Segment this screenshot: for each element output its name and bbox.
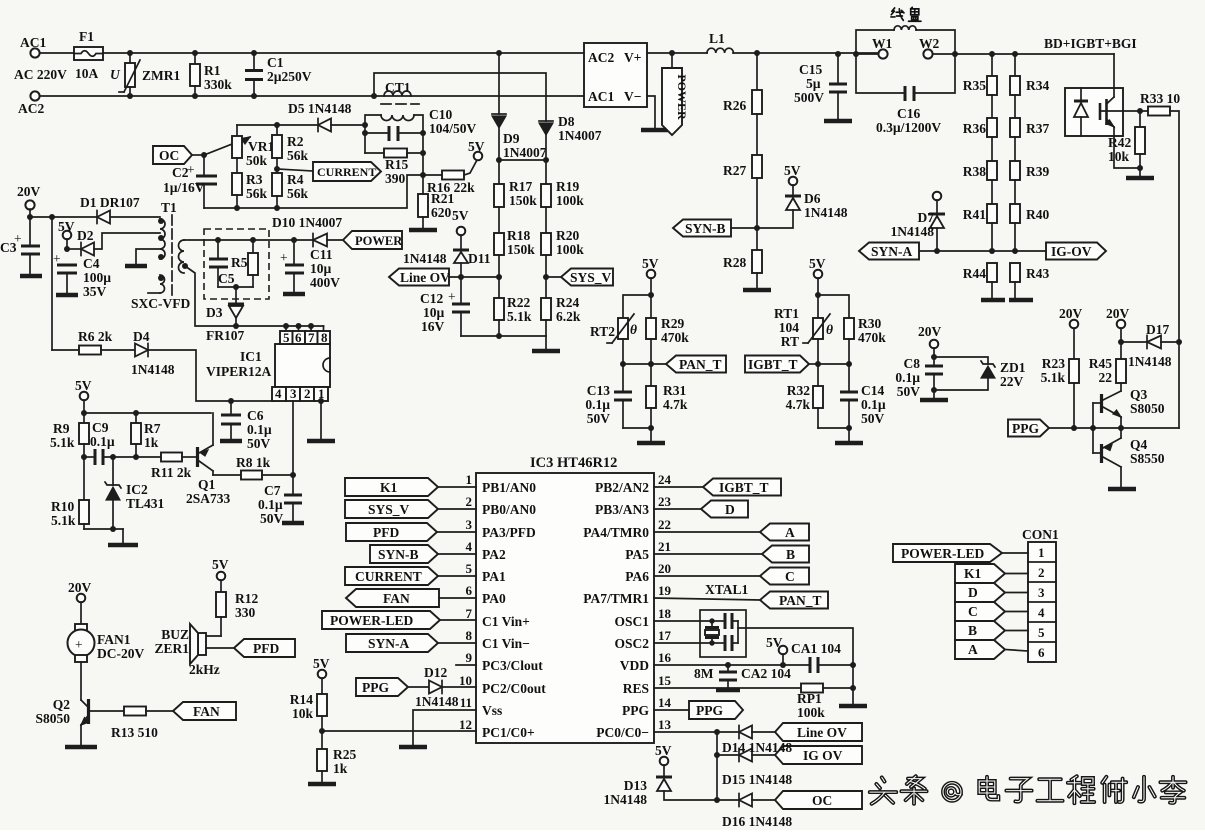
wire OSC2 to crystal	[654, 640, 715, 645]
svg-text:D13: D13	[624, 778, 647, 793]
svg-text:1: 1	[1038, 545, 1045, 560]
node interconnect right	[543, 157, 549, 163]
svg-text:1N4148: 1N4148	[403, 251, 447, 266]
svg-text:Q2: Q2	[53, 697, 71, 712]
svg-text:5: 5	[1038, 625, 1045, 640]
svg-text:5: 5	[466, 561, 473, 576]
wire V+ output	[647, 52, 707, 54]
svg-text:10k: 10k	[1108, 149, 1130, 164]
svg-text:PB0/AN0: PB0/AN0	[482, 502, 536, 517]
node 5V terminal R14	[313, 656, 330, 694]
fuse F1 10A	[74, 29, 103, 81]
svg-text:16V: 16V	[421, 319, 445, 334]
capacitor C1 2u250V	[245, 53, 312, 96]
diode D15 1N4148	[717, 749, 775, 762]
IC IC3 HT46R12 box	[476, 455, 654, 743]
resistor R33 10	[1140, 91, 1180, 342]
node RT2 bottom	[620, 361, 626, 367]
svg-text:19: 19	[658, 583, 672, 598]
flag K1 (CON1 pin2)	[955, 564, 1028, 583]
svg-text:VR1: VR1	[248, 139, 274, 154]
node junction ZMR1 bottom	[127, 93, 133, 99]
svg-text:F1: F1	[79, 29, 94, 44]
node AC1 sample junction	[371, 93, 377, 99]
wire gate to R33	[1123, 110, 1148, 112]
svg-text:IC3 HT46R12: IC3 HT46R12	[530, 455, 617, 471]
node C10 left	[362, 130, 368, 136]
wire IGBT emitter to R42 ground	[1114, 136, 1154, 178]
resistor R14 10k	[290, 692, 327, 749]
node W1 terminal	[856, 36, 893, 59]
svg-text:R39: R39	[1026, 164, 1049, 179]
svg-text:R13 510: R13 510	[111, 725, 158, 740]
capacitor C14 0.1u 50V	[840, 364, 886, 428]
svg-text:R12: R12	[235, 591, 258, 606]
svg-text:IGBT_T: IGBT_T	[748, 357, 798, 372]
svg-text:1: 1	[466, 472, 473, 487]
wire IC1 pin1 to ground	[307, 398, 335, 441]
capacitor C5	[209, 237, 235, 287]
crystal element	[705, 621, 719, 643]
svg-text:1k: 1k	[333, 761, 348, 776]
svg-text:7: 7	[466, 606, 473, 621]
svg-text:PB2/AN2: PB2/AN2	[595, 480, 649, 495]
diode D16 1N4148	[717, 794, 775, 807]
wire VR1 wiper arrow	[204, 137, 250, 155]
resistor R12 330	[216, 591, 258, 636]
diode D11 1N4148	[403, 235, 491, 277]
svg-text:22: 22	[658, 517, 671, 532]
svg-text:VIPER12A: VIPER12A	[206, 364, 272, 379]
capacitor C8 0.1u 50V	[895, 356, 943, 399]
flag B (pin21)	[654, 546, 809, 563]
svg-text:CURRENT: CURRENT	[317, 165, 376, 179]
svg-text:C15: C15	[799, 62, 822, 77]
coil plate loop W1/W2	[853, 26, 958, 57]
node R30 bottom	[846, 361, 852, 367]
capacitor C12 10u 16V	[420, 277, 470, 336]
svg-text:10µ: 10µ	[423, 305, 445, 320]
svg-text:PPG: PPG	[1012, 421, 1039, 436]
svg-text:R5: R5	[231, 255, 248, 270]
svg-text:D12: D12	[424, 665, 447, 680]
node RP1 right junction	[850, 685, 856, 691]
svg-text:POWER: POWER	[355, 234, 403, 248]
node 5V junction	[648, 292, 654, 298]
flag OC (bottom)	[775, 791, 862, 809]
ground crystal/CA1/RP1	[839, 665, 867, 706]
svg-text:0.1µ: 0.1µ	[258, 497, 283, 512]
svg-text:4: 4	[466, 539, 473, 554]
svg-text:AC1: AC1	[20, 35, 46, 50]
wire Vss pin11 to ground	[399, 710, 476, 747]
svg-text:330k: 330k	[204, 77, 232, 92]
svg-text:0.1µ: 0.1µ	[861, 397, 886, 412]
node D17 right junction	[1176, 339, 1182, 345]
node R26 column top	[754, 50, 760, 56]
resistor R24 6.2k	[541, 277, 581, 336]
svg-text:8: 8	[466, 628, 473, 643]
svg-text:D3: D3	[206, 305, 223, 320]
svg-text:R19: R19	[556, 179, 579, 194]
svg-text:R24: R24	[556, 295, 579, 310]
node 20V junction	[27, 214, 33, 220]
node R3 bottom	[234, 205, 240, 211]
svg-text:D6: D6	[804, 191, 821, 206]
resistor R30 470k	[844, 316, 886, 364]
varistor ZMR1	[110, 53, 180, 96]
svg-text:R17: R17	[509, 179, 532, 194]
svg-text:C8: C8	[904, 356, 921, 371]
svg-text:R1: R1	[204, 63, 221, 78]
IC1 bottom pins 4 3 2 1	[272, 386, 328, 401]
svg-text:330: 330	[235, 605, 256, 620]
svg-text:16: 16	[658, 650, 672, 665]
node C10 right	[420, 130, 426, 136]
svg-text:CURRENT: CURRENT	[355, 569, 422, 584]
ground R21	[409, 228, 437, 233]
flag PPG (pin14)	[654, 701, 743, 719]
svg-text:SYS_V: SYS_V	[368, 502, 410, 517]
diode D12 1N4148	[415, 665, 476, 709]
flag PAN_T	[666, 356, 726, 373]
svg-text:620: 620	[431, 205, 452, 220]
svg-text:C4: C4	[83, 256, 100, 271]
svg-text:400V: 400V	[310, 275, 340, 290]
resistor R7 1k	[131, 410, 161, 457]
svg-text:100k: 100k	[797, 705, 825, 720]
ground Q4	[1108, 487, 1136, 492]
node 20V terminal R45	[1106, 306, 1130, 359]
svg-text:AC 220V: AC 220V	[14, 67, 67, 82]
flag C (CON1 pin4)	[955, 602, 1028, 621]
svg-text:1N4007: 1N4007	[558, 128, 602, 143]
flag PPG driver input	[1008, 420, 1049, 437]
svg-text:22: 22	[1099, 370, 1113, 385]
diode D2	[67, 228, 160, 256]
svg-text:100k: 100k	[556, 242, 584, 257]
svg-text:1N4148: 1N4148	[604, 792, 648, 807]
node ladder left top	[989, 51, 995, 57]
svg-text:SYN-A: SYN-A	[871, 244, 913, 259]
node W2 terminal	[919, 36, 955, 59]
svg-text:0.1µ: 0.1µ	[247, 422, 272, 437]
resistor R1 330k	[190, 53, 232, 96]
svg-text:R41: R41	[963, 207, 986, 222]
wire OSC1 to crystal	[654, 618, 715, 623]
svg-text:5V: 5V	[58, 219, 75, 234]
svg-text:R42: R42	[1108, 135, 1131, 150]
flag CURRENT (pin5)	[345, 567, 476, 585]
svg-text:R23: R23	[1042, 356, 1065, 371]
wire 20V down	[29, 209, 31, 245]
transistor Q3 S8050	[1102, 387, 1165, 428]
node 5V terminal Q1 block	[75, 378, 92, 423]
motor FAN1 DC-20V	[68, 624, 145, 662]
svg-text:AC2: AC2	[588, 50, 614, 65]
capacitor C6 0.1u 50V	[220, 398, 272, 451]
wire motor to Q2	[80, 662, 82, 700]
flag K1 (pin1)	[345, 478, 476, 496]
svg-text:50V: 50V	[587, 411, 611, 426]
svg-text:RT: RT	[781, 334, 799, 349]
resistor R26	[723, 53, 762, 114]
node 20V terminal R23	[1059, 306, 1083, 359]
svg-text:PA0: PA0	[482, 591, 506, 606]
node junction C1 bottom	[251, 93, 257, 99]
svg-text:FR107: FR107	[206, 328, 244, 343]
flag POWER-LED (CON1 pin1)	[893, 544, 1028, 562]
svg-text:PC0/C0−: PC0/C0−	[596, 725, 649, 740]
node R20/R24 junction	[543, 274, 549, 280]
node R15 right	[420, 150, 426, 156]
wire T1 mid tap	[125, 249, 160, 266]
flag PFD (buzzer)	[206, 639, 295, 657]
svg-text:R18: R18	[507, 228, 530, 243]
capacitor crystal bottom	[712, 635, 738, 651]
svg-text:R29: R29	[661, 316, 684, 331]
resistor R27	[723, 114, 762, 250]
wire PPG to bases and output	[1049, 425, 1179, 431]
svg-text:5.1k: 5.1k	[51, 513, 76, 528]
svg-text:20V: 20V	[1106, 306, 1130, 321]
resistor R21 620	[418, 175, 454, 229]
node R2/R4 junction	[274, 166, 280, 172]
flag IG-OV	[1046, 243, 1106, 260]
svg-text:R8 1k: R8 1k	[236, 455, 271, 470]
resistor R38	[963, 137, 997, 180]
svg-text:D4: D4	[133, 329, 150, 344]
svg-text:C: C	[785, 569, 795, 584]
node D9 top junction	[496, 50, 502, 56]
flag SYN-B (pin4)	[370, 545, 476, 563]
wire T1 secondary top to C5 box	[184, 239, 294, 241]
svg-text:5.1k: 5.1k	[507, 309, 532, 324]
svg-text:θ: θ	[630, 322, 637, 337]
flag PPG (pin10 via D12)	[356, 678, 429, 696]
node junction C1 top	[251, 50, 257, 56]
node D5 output to loop	[362, 122, 368, 128]
svg-text:PA7/TMR1: PA7/TMR1	[583, 591, 649, 606]
svg-text:IG-OV: IG-OV	[1051, 244, 1092, 259]
transformer T1 secondary winding	[179, 240, 188, 273]
node CA1 right junction	[850, 662, 856, 668]
wire bottom AC rail	[40, 95, 584, 97]
transformer T1 feedback winding	[148, 275, 165, 293]
wire 20V down-left column	[51, 217, 53, 350]
node R2 top junction	[274, 122, 280, 128]
svg-text:6: 6	[466, 583, 473, 598]
svg-text:3: 3	[1038, 585, 1045, 600]
svg-text:10µ: 10µ	[310, 261, 332, 276]
svg-text:2: 2	[304, 386, 311, 401]
svg-text:D16 1N4148: D16 1N4148	[722, 814, 792, 829]
svg-text:D: D	[968, 585, 978, 600]
svg-text:SXC-VFD: SXC-VFD	[131, 296, 190, 311]
svg-text:+: +	[448, 289, 456, 304]
svg-text:5V: 5V	[655, 743, 672, 758]
flag C (pin20)	[654, 568, 809, 585]
svg-text:C12: C12	[420, 291, 443, 306]
svg-text:C10: C10	[429, 107, 452, 122]
svg-text:R15: R15	[385, 157, 408, 172]
label 线盘 (vector glyphs)	[891, 7, 921, 21]
resistor R39	[1010, 137, 1049, 180]
svg-text:BD+IGBT+BGI: BD+IGBT+BGI	[1044, 36, 1137, 51]
svg-text:R36: R36	[963, 121, 986, 136]
node ladder right top	[1012, 51, 1018, 57]
potentiometer VR1 50k	[232, 125, 274, 173]
svg-text:Line OV: Line OV	[797, 725, 847, 740]
svg-text:K1: K1	[964, 566, 982, 581]
svg-text:21: 21	[658, 539, 671, 554]
svg-text:PPG: PPG	[362, 680, 389, 695]
svg-text:RT2: RT2	[590, 324, 615, 339]
flag POWER-LED (pin7)	[322, 611, 476, 629]
svg-text:20: 20	[658, 561, 671, 576]
svg-text:PA2: PA2	[482, 547, 506, 562]
resistor R8 1k	[213, 455, 293, 480]
svg-text:C14: C14	[861, 383, 884, 398]
label glyph 线	[891, 8, 904, 20]
svg-text:100k: 100k	[556, 193, 584, 208]
diode D4 1N4148	[131, 329, 279, 401]
svg-text:20V: 20V	[17, 184, 41, 199]
svg-text:9: 9	[466, 650, 473, 665]
svg-text:390: 390	[385, 171, 406, 186]
svg-text:20V: 20V	[1059, 306, 1083, 321]
wire D9-D8 interconnect	[499, 159, 546, 161]
crystal XTAL1 box	[700, 610, 746, 657]
svg-text:R35: R35	[963, 78, 986, 93]
capacitor C11 10u 400V	[280, 240, 340, 294]
IGBT module box	[1065, 88, 1123, 136]
svg-text:PB1/AN0: PB1/AN0	[482, 480, 536, 495]
inductor L1	[707, 31, 733, 53]
svg-text:2: 2	[1038, 565, 1045, 580]
svg-text:SYS_V: SYS_V	[570, 270, 612, 285]
svg-text:S8050: S8050	[1130, 401, 1165, 416]
resistor R25 1k	[308, 747, 356, 784]
svg-text:SYN-A: SYN-A	[368, 636, 410, 651]
svg-text:24: 24	[658, 472, 672, 487]
svg-text:PA5: PA5	[625, 547, 649, 562]
svg-text:RP1: RP1	[797, 691, 822, 706]
label glyph 盘	[909, 7, 921, 21]
flag PAN_T (pin19)	[654, 592, 828, 609]
svg-text:2SA733: 2SA733	[186, 491, 231, 506]
wire top rail VR1-R2-D5	[237, 124, 318, 126]
wire 20V rail to T1	[30, 216, 160, 218]
svg-text:D2: D2	[77, 228, 94, 243]
svg-text:5V: 5V	[452, 208, 469, 223]
resistor R5	[231, 237, 258, 287]
resistor R13 510	[90, 707, 173, 741]
svg-text:3: 3	[290, 386, 297, 401]
resistor R32 4.7k	[786, 364, 823, 428]
svg-text:A: A	[785, 525, 795, 540]
node C9 right / IC2 junction	[110, 454, 116, 460]
ground bridge V-	[641, 128, 669, 133]
svg-text:2kHz: 2kHz	[189, 662, 220, 677]
node D3 junction on IC1 rail	[233, 323, 239, 329]
node junction R1 bottom	[192, 93, 198, 99]
ground R28	[743, 288, 771, 293]
svg-text:+: +	[53, 251, 61, 266]
wire 5V rail	[84, 412, 211, 414]
svg-text:D17: D17	[1146, 322, 1169, 337]
svg-text:CA2 104: CA2 104	[741, 666, 791, 681]
wire pin13 row	[654, 729, 739, 735]
resistor R18 150k	[494, 207, 535, 277]
svg-text:OC: OC	[812, 793, 832, 808]
wire to R30 column	[818, 295, 849, 318]
svg-text:R43: R43	[1026, 266, 1049, 281]
svg-text:1N4148: 1N4148	[131, 362, 175, 377]
wire rail to R35/R34 columns	[955, 53, 1114, 55]
svg-text:2: 2	[466, 494, 473, 509]
capacitor C15 5u 500V	[794, 51, 852, 121]
svg-text:FAN: FAN	[193, 704, 220, 719]
svg-text:56k: 56k	[246, 186, 268, 201]
svg-text:14: 14	[658, 695, 672, 710]
svg-text:22V: 22V	[1000, 374, 1024, 389]
svg-text:12: 12	[459, 717, 472, 732]
svg-text:POWER-LED: POWER-LED	[330, 613, 414, 628]
wire junction to CURRENT flag	[277, 169, 313, 171]
svg-text:D8: D8	[558, 114, 575, 129]
wire IC1 pin3 feedback column	[292, 401, 294, 475]
svg-text:L1: L1	[709, 31, 725, 46]
svg-text:V+: V+	[624, 50, 641, 65]
node R14/R25 junction	[319, 728, 325, 734]
svg-text:C6: C6	[247, 408, 264, 423]
wire SYN-A mid rail	[919, 250, 1046, 252]
node 5V terminal D13	[655, 743, 672, 765]
svg-text:Q4: Q4	[1130, 437, 1148, 452]
svg-text:S8050: S8050	[35, 711, 70, 726]
svg-text:ZMR1: ZMR1	[142, 68, 180, 83]
node R8 / pin3 junction	[290, 472, 296, 478]
resistor R23 5.1k	[1041, 356, 1079, 428]
svg-text:PB3/AN3: PB3/AN3	[595, 502, 649, 517]
svg-text:D7: D7	[918, 210, 935, 225]
resistor R34	[1010, 54, 1049, 95]
svg-text:R10: R10	[51, 499, 74, 514]
wire L1 to coil rail	[733, 52, 878, 54]
resistor R10 5.1k	[51, 499, 89, 529]
svg-text:150k: 150k	[507, 242, 535, 257]
svg-text:2µ250V: 2µ250V	[267, 69, 312, 84]
IC IC1 VIPER12A	[206, 344, 330, 387]
resistor R16 22k	[423, 160, 477, 195]
flag SYN-A	[859, 243, 919, 260]
wire IC1 pins 5-8 rail	[236, 323, 324, 331]
svg-text:VDD: VDD	[620, 658, 649, 673]
capacitor CA2 104	[716, 662, 791, 690]
wire AC1 to fuse	[40, 52, 74, 54]
svg-text:35V: 35V	[83, 284, 107, 299]
svg-text:SYN-B: SYN-B	[378, 547, 419, 562]
capacitor C7 0.1u 50V	[258, 475, 304, 526]
thermistor RT1 104	[774, 306, 833, 364]
svg-text:+: +	[75, 637, 83, 652]
node 20V terminal C8	[918, 324, 942, 365]
resistor R11 2k	[136, 453, 196, 481]
flag Line OV (bottom)	[775, 723, 862, 741]
svg-text:0.1µ: 0.1µ	[90, 434, 115, 449]
node 5V terminal VDD	[766, 635, 787, 668]
